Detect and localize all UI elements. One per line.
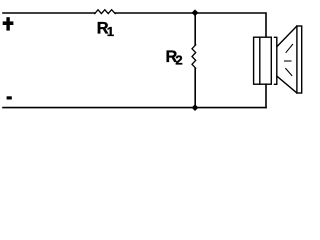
svg-text:1: 1 xyxy=(107,24,114,39)
svg-text:2: 2 xyxy=(175,53,182,68)
